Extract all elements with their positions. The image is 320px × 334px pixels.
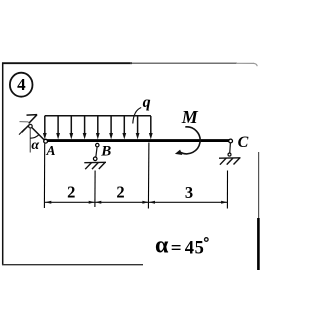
svg-text:45: 45	[185, 238, 205, 258]
svg-text:A: A	[46, 143, 56, 158]
svg-text:q: q	[143, 94, 151, 111]
svg-text:α: α	[155, 232, 169, 258]
svg-text:4: 4	[17, 75, 26, 94]
svg-text:2: 2	[67, 182, 75, 201]
svg-text:3: 3	[185, 183, 193, 202]
svg-text:B: B	[100, 143, 111, 159]
svg-text:M: M	[181, 107, 199, 127]
svg-text:α: α	[31, 138, 39, 153]
svg-text:2: 2	[116, 182, 124, 201]
svg-text:=: =	[171, 238, 182, 259]
svg-text:C: C	[238, 134, 249, 151]
